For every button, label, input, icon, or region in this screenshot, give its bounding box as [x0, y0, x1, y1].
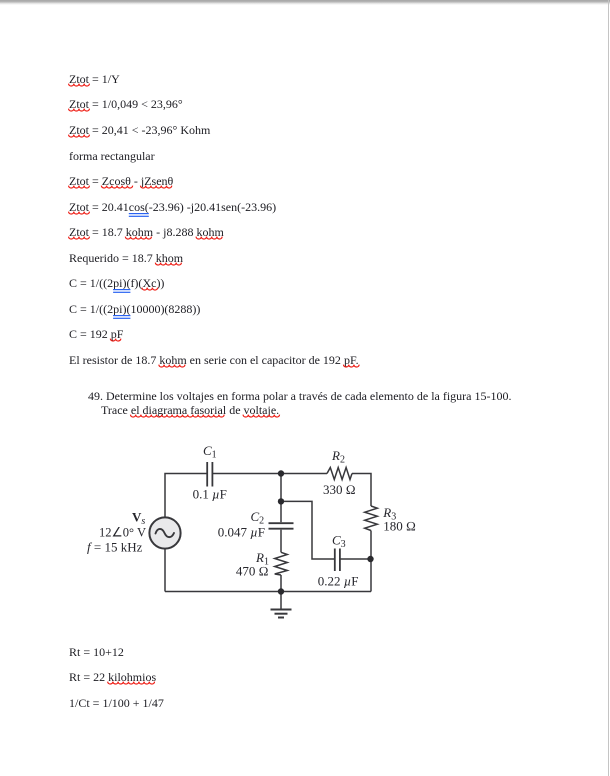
capacitor C1 plates [206, 462, 208, 487]
svg-text:180 Ω: 180 Ω [383, 519, 416, 534]
wire node C down to bottom rail [370, 559, 372, 592]
red spell squiggle: Zcosθ [101, 186, 132, 188]
red spell squiggle: jZsenθ [141, 186, 172, 188]
red spell squiggle: pF. [344, 365, 360, 367]
svg-text:12∠0° V: 12∠0° V [99, 525, 147, 540]
source sine wave [156, 529, 175, 537]
node A junction dot [278, 470, 284, 476]
red spell squiggle: Ztot [69, 237, 90, 239]
svg-text:470 Ω: 470 Ω [236, 564, 269, 579]
red spell squiggle: Ztot [69, 186, 90, 188]
wire node B down to C2 [280, 501, 282, 522]
red spell squiggle: kilohmios [108, 682, 155, 684]
source Vs circle [149, 517, 180, 548]
wire branch node B to C3 [281, 501, 334, 559]
wire C3 to node C [340, 558, 371, 560]
wire node A down to node B [280, 474, 282, 502]
svg-text:C1: C1 [203, 443, 217, 461]
ground bar 3 [278, 617, 284, 619]
ground stub [280, 592, 282, 609]
red spell squiggle: Ztot [69, 109, 90, 111]
red spell squiggle: Ztot [69, 212, 90, 214]
wire C1 to node A [212, 473, 327, 475]
svg-text:0.1 µF: 0.1 µF [193, 487, 227, 502]
node B junction dot [278, 498, 284, 504]
red spell squiggle: el diagrama fasorial [131, 415, 225, 417]
capacitor C3 plates [334, 549, 336, 572]
blue grammar underline: cos( [129, 213, 149, 214]
blue grammar underline: pi)( [113, 289, 130, 290]
red spell squiggle: Ztot [69, 135, 90, 137]
svg-text:0.22 µF: 0.22 µF [318, 574, 359, 589]
red spell squiggle: kohm [196, 237, 222, 239]
circuit figure: figure 15-100 schematic [80, 438, 425, 628]
resistor R1 zigzag [275, 552, 288, 575]
red spell squiggle: kohm [125, 237, 151, 239]
red spell squiggle: pF [110, 339, 120, 341]
ground bar 2 [275, 613, 288, 615]
svg-text:0.047 µF: 0.047 µF [218, 525, 265, 540]
resistor R2 zigzag [327, 468, 352, 480]
node C junction dot [367, 556, 373, 562]
wire source bottom to rail [164, 549, 166, 592]
capacitor C2 plates [269, 522, 294, 524]
svg-text:R2: R2 [331, 448, 345, 466]
svg-text:C3: C3 [332, 533, 346, 551]
blue grammar underline: pi)( [113, 315, 130, 316]
wire R2 right lead and right-top corner down to R3 [352, 474, 371, 507]
ground node junction dot [278, 588, 284, 594]
red spell squiggle: Ztot [69, 84, 90, 86]
red spell squiggle: Xc [142, 288, 158, 290]
wire top-left: source top to C1 [165, 474, 207, 518]
wire R1 to bottom rail [280, 575, 282, 592]
ground bar 1 [271, 609, 292, 611]
svg-text:f = 15 kHz: f = 15 kHz [87, 540, 143, 555]
wire C2 to R1 [280, 530, 282, 553]
red spell squiggle: khom [155, 263, 181, 265]
resistor R3 zigzag [365, 506, 378, 531]
red spell squiggle: voltaje. [243, 415, 279, 417]
svg-text:330 Ω: 330 Ω [323, 482, 356, 497]
red spell squiggle: kohm [159, 365, 185, 367]
wire R3 bottom to node C [370, 531, 372, 560]
wire bottom rail [165, 591, 371, 593]
